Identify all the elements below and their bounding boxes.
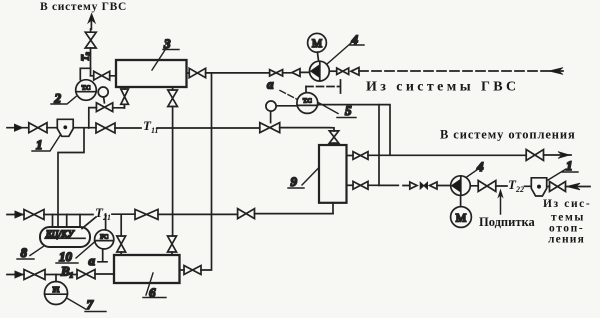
svg-text:М: М: [456, 211, 467, 225]
valve vessel 9 lower right: [353, 181, 368, 189]
flow meter FI 7: [45, 282, 68, 305]
valve right of strainer: [550, 182, 566, 192]
svg-text:9: 9: [291, 174, 298, 189]
svg-text:7: 7: [87, 297, 94, 312]
heat exchanger 3: [116, 60, 187, 87]
node flow arrow left: [351, 68, 359, 76]
valve above vessel 9: [329, 131, 338, 143]
wire vessel 9 bottom to T21: [332, 203, 334, 214]
motor M of right pump: [451, 207, 472, 228]
controller FC 10: [95, 230, 114, 249]
valve on T21 inlet: [24, 210, 44, 220]
device 8 (heat computer): [40, 227, 90, 247]
check valve on GVS return: [270, 70, 283, 76]
vessel 9: [319, 145, 347, 203]
wire impulse line controller 5 to pump line: [306, 80, 341, 93]
control valve on T11: [260, 123, 280, 133]
svg-text:Т.С: Т.С: [303, 99, 312, 105]
check valve small (make-up): [420, 182, 427, 189]
svg-text:4: 4: [476, 159, 484, 174]
wire branch to control valve Vb: [89, 104, 125, 128]
node arrow right on make-up: [410, 182, 417, 189]
pump 4 (GVS circulation): [310, 61, 330, 81]
strainer 1 (right): [531, 178, 546, 196]
node flow arrow left (GVS): [292, 69, 300, 77]
wire T3 riser: [90, 16, 93, 76]
valve Vb (controller 2 valve): [96, 103, 112, 112]
wire sensor stubs of device 8: [53, 215, 97, 229]
wire branch to device 8: [58, 128, 84, 227]
wire V1 riser: [378, 105, 380, 186]
svg-text:ЕЦ/КУ: ЕЦ/КУ: [45, 229, 75, 239]
wire dashed line from GVS system: [359, 70, 563, 72]
node arrow up (make-up): [498, 190, 503, 198]
wire riser V3 down to exchanger 6: [201, 73, 212, 270]
wire GVS return line: [187, 71, 310, 74]
svg-text:М: М: [312, 38, 322, 50]
svg-text:FI: FI: [53, 285, 60, 294]
heat exchanger 6: [114, 255, 180, 283]
wire make-up vertical branch: [500, 195, 502, 214]
wire exchanger 3 left port: [91, 75, 117, 77]
svg-text:3: 3: [163, 36, 171, 51]
svg-text:1: 1: [566, 158, 573, 173]
wire heating supply line: [368, 154, 571, 156]
svg-text:FС: FС: [100, 234, 108, 241]
valve on T21 mid: [135, 209, 158, 219]
valve under exchanger 3 bottom-right: [168, 90, 178, 107]
wire T11 inlet line: [7, 128, 334, 131]
svg-text:Подпитка: Подпитка: [479, 215, 535, 229]
node arrow from heating system (points left): [567, 183, 581, 190]
valve Va on exchanger 3 left port: [94, 71, 110, 80]
svg-text:1: 1: [36, 137, 43, 152]
valve on exchanger 6 right port: [184, 266, 201, 275]
valve on T11 after strainer: [96, 123, 115, 133]
valve on T3 riser: [85, 32, 96, 48]
node arrow left on make-up: [430, 182, 437, 189]
valve on exchanger 3 right port: [189, 68, 205, 77]
svg-text:2: 2: [54, 91, 62, 106]
valve above exchanger 6 right: [168, 236, 177, 252]
wire L1 sensor line: [277, 105, 390, 155]
valve right of pump (heating return): [478, 181, 496, 192]
wire B1 cold water line: [7, 273, 114, 276]
wire FC connection: [98, 214, 107, 262]
svg-text:a: a: [267, 77, 274, 92]
motor M of pump 4: [308, 33, 327, 52]
node arrow up to GVS system: [88, 14, 95, 24]
valve on B1 before exchanger: [77, 270, 95, 279]
svg-text:В систему отопления: В систему отопления: [440, 128, 576, 142]
wire tap to controller 2: [80, 68, 90, 79]
node arrow on GVS dashed line: [549, 68, 563, 75]
check valve right of pump 4: [337, 68, 349, 75]
valve vessel 9 upper right: [353, 152, 368, 160]
node B1 flow arrow: [15, 271, 23, 278]
actuator head of control valve (T11): [266, 101, 276, 111]
valve on T11 inlet: [29, 123, 47, 133]
valve above exchanger 6 left: [117, 236, 126, 252]
valve on T21 right: [238, 209, 255, 219]
controller 2 circle T:C: [76, 80, 97, 101]
node T11 flow arrow: [15, 124, 23, 131]
svg-text:Из сис-: Из сис-: [543, 198, 591, 210]
svg-text:10: 10: [59, 249, 73, 264]
valve on heating supply: [526, 150, 543, 161]
wire make-up line (y185): [368, 185, 590, 186]
label T3 (rotated): [81, 51, 93, 61]
strainer 1 (mud trap, left): [57, 119, 73, 136]
svg-text:8: 8: [21, 245, 28, 260]
svg-text:В систему ГВС: В систему ГВС: [40, 1, 127, 13]
wire pump 4 outlet right: [329, 70, 336, 72]
controller 5 circle T:C: [297, 93, 318, 114]
valve on B1 inlet: [24, 270, 45, 280]
pump 4 (heating, right): [451, 176, 471, 196]
node arrow to heating system: [558, 152, 570, 159]
svg-text:Из системы ГВС: Из системы ГВС: [366, 80, 520, 95]
svg-text:a: a: [89, 253, 96, 268]
svg-text:Т.С: Т.С: [82, 86, 91, 92]
valve under exchanger 3 bottom-left: [121, 89, 129, 104]
actuator head of valve Vb: [98, 87, 108, 97]
node T21 flow arrow: [15, 211, 23, 218]
svg-text:ления: ления: [548, 234, 585, 246]
wire T21 return line: [7, 213, 333, 216]
wire FI drop: [55, 274, 57, 281]
